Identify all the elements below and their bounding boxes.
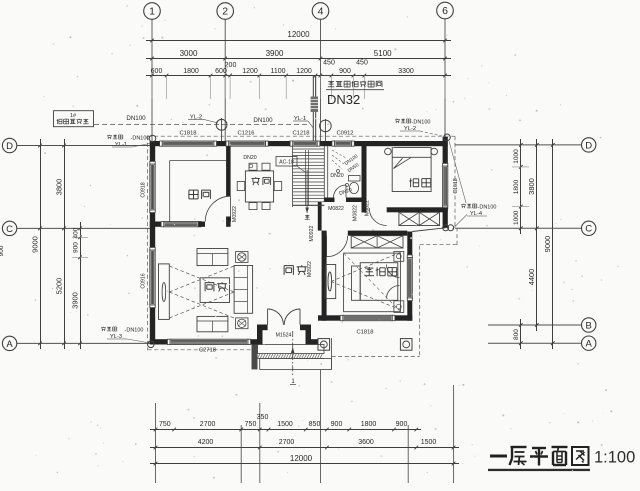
- svg-text:3300: 3300: [398, 68, 414, 75]
- svg-text:900: 900: [0, 245, 5, 256]
- svg-text:C0918: C0918: [141, 182, 147, 197]
- svg-text:5100: 5100: [374, 49, 392, 58]
- svg-text:-DN100: -DN100: [478, 205, 497, 211]
- svg-text:1200: 1200: [296, 68, 312, 75]
- svg-text:1800: 1800: [361, 421, 377, 428]
- svg-text:1800: 1800: [183, 68, 199, 75]
- svg-text:600: 600: [215, 68, 227, 75]
- svg-text:3900: 3900: [71, 292, 80, 309]
- svg-text:3900: 3900: [266, 49, 284, 58]
- svg-text:900: 900: [331, 421, 343, 428]
- svg-text:C1618: C1618: [453, 178, 459, 193]
- svg-text:A: A: [586, 339, 593, 350]
- svg-text:600: 600: [151, 68, 163, 75]
- svg-text:3800: 3800: [55, 179, 64, 196]
- svg-text:6: 6: [442, 5, 448, 17]
- svg-text:750: 750: [245, 421, 257, 428]
- svg-text:M0822: M0822: [328, 206, 344, 212]
- svg-text:1500: 1500: [421, 439, 437, 446]
- svg-text:1000: 1000: [513, 210, 520, 225]
- svg-text:DN100: DN100: [126, 115, 146, 122]
- svg-text:1:100: 1:100: [594, 449, 635, 467]
- svg-text:M0922: M0922: [309, 225, 315, 241]
- svg-text:C2718: C2718: [199, 348, 216, 354]
- svg-text:4400: 4400: [527, 269, 536, 286]
- svg-text:4200: 4200: [198, 439, 214, 446]
- svg-text:M0822: M0822: [365, 200, 371, 216]
- svg-text:1100: 1100: [270, 68, 285, 75]
- svg-text:M0822: M0822: [353, 205, 359, 221]
- svg-text:C: C: [585, 224, 592, 235]
- svg-text:3800: 3800: [527, 178, 536, 195]
- svg-text:400: 400: [73, 227, 80, 238]
- svg-text:D: D: [585, 140, 592, 151]
- svg-text:C1818: C1818: [356, 330, 373, 336]
- svg-text:900: 900: [339, 68, 351, 75]
- svg-text:9000: 9000: [543, 236, 552, 253]
- svg-text:900: 900: [396, 421, 408, 428]
- svg-text:DN32: DN32: [327, 92, 360, 107]
- svg-text:DN20: DN20: [243, 155, 256, 161]
- svg-text:1000: 1000: [513, 149, 520, 164]
- svg-text:750: 750: [159, 421, 171, 428]
- svg-text:M1524: M1524: [276, 333, 292, 339]
- svg-text:A: A: [6, 339, 13, 350]
- svg-text:1800: 1800: [513, 179, 520, 194]
- svg-text:2700: 2700: [279, 439, 295, 446]
- svg-text:850: 850: [309, 421, 321, 428]
- svg-text:3000: 3000: [180, 49, 198, 58]
- svg-text:M0922: M0922: [232, 206, 238, 222]
- svg-text:C: C: [6, 224, 13, 235]
- svg-text:2: 2: [222, 6, 228, 18]
- svg-text:800: 800: [513, 329, 520, 340]
- svg-text:1200: 1200: [242, 68, 258, 75]
- svg-text:3600: 3600: [358, 439, 374, 446]
- svg-text:1#: 1#: [70, 113, 77, 119]
- svg-text:4: 4: [318, 6, 324, 18]
- svg-text:DN100: DN100: [253, 117, 273, 124]
- svg-text:M0922: M0922: [307, 261, 313, 277]
- svg-text:DN20: DN20: [330, 173, 343, 179]
- svg-text:-DN100: -DN100: [131, 136, 150, 142]
- svg-text:2700: 2700: [200, 421, 216, 428]
- svg-text:350: 350: [257, 414, 269, 421]
- svg-text:900: 900: [73, 242, 80, 253]
- svg-text:AC-18: AC-18: [279, 160, 294, 166]
- svg-text:450: 450: [356, 60, 368, 67]
- svg-text:9000: 9000: [31, 236, 40, 253]
- svg-text:-DN100: -DN100: [125, 328, 144, 334]
- svg-text:1: 1: [149, 6, 155, 18]
- svg-text:C1216: C1216: [237, 131, 254, 137]
- svg-text:12000: 12000: [290, 454, 313, 463]
- svg-text:B: B: [586, 320, 592, 331]
- svg-text:C0912: C0912: [336, 131, 353, 137]
- svg-text:5200: 5200: [55, 278, 64, 295]
- svg-text:1500: 1500: [277, 421, 293, 428]
- svg-text:C1818: C1818: [179, 131, 196, 137]
- svg-text:C0916: C0916: [141, 273, 147, 288]
- svg-text:-DN100: -DN100: [412, 120, 431, 126]
- svg-text:C1218: C1218: [292, 131, 309, 137]
- svg-text:12000: 12000: [287, 30, 310, 39]
- svg-text:D: D: [6, 141, 13, 152]
- svg-text:450: 450: [323, 60, 335, 67]
